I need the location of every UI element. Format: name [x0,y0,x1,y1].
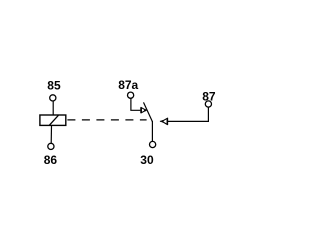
wire 87 down then left [168,107,208,121]
arrowhead at 87 contact (points left at arm) [160,118,168,125]
wire 87a down then right [131,99,141,111]
relay coil K1 rectangle [40,115,66,125]
coil diagonal slash [49,115,58,125]
svg-text:30: 30 [140,153,154,167]
svg-text:87a: 87a [118,78,138,92]
wire 85 to coil [52,101,54,115]
terminal circle 86 [48,143,54,149]
terminal circle 87a [128,92,134,98]
wire coil to 86 [50,125,52,143]
switch arm (movable contact) [144,102,153,121]
wire arm to 30 [151,121,153,141]
dashed actuation link from coil to switch arm [67,119,146,121]
svg-text:86: 86 [44,153,58,167]
arrowhead at 87a contact (points right at arm) [141,107,146,113]
terminal circle 85 [50,95,56,101]
terminal circle 87 [205,101,211,107]
terminal circle 30 [150,141,156,147]
svg-text:85: 85 [47,79,61,93]
